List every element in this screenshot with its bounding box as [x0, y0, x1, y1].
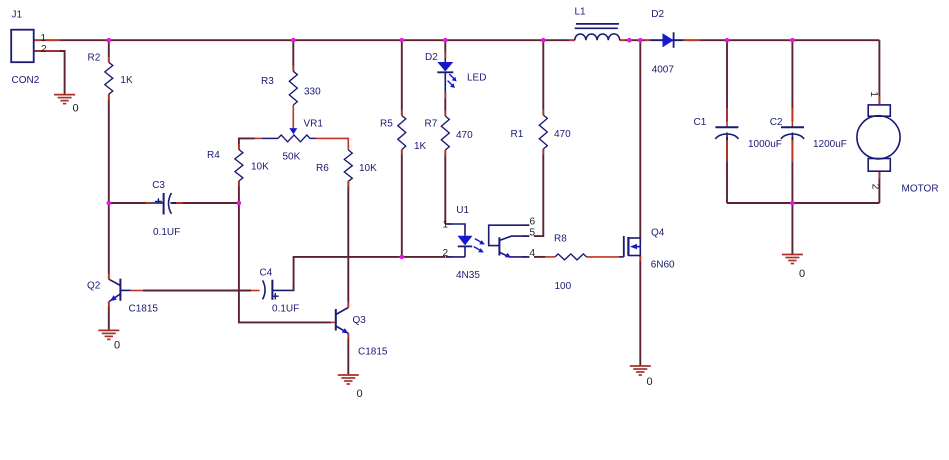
- svg-text:1200uF: 1200uF: [813, 139, 847, 150]
- wire C1 to bottom rail: [726, 137, 728, 203]
- svg-text:R8: R8: [554, 233, 567, 244]
- wire rail to R1: [542, 40, 544, 115]
- svg-text:0: 0: [114, 340, 120, 352]
- svg-text:0.1UF: 0.1UF: [272, 304, 299, 315]
- wire C4 up to pin2 node: [294, 257, 402, 291]
- resistor R5: [398, 116, 406, 150]
- wire rail to R2: [108, 40, 110, 62]
- wire R7 to U1 pin1: [444, 150, 446, 224]
- svg-text:CON2: CON2: [12, 75, 40, 86]
- svg-text:4: 4: [530, 248, 536, 259]
- wire Q2 emitter to ground: [108, 301, 110, 330]
- ground C2 node: [782, 255, 803, 264]
- potentiometer VR1 body: [262, 135, 316, 142]
- svg-text:U1: U1: [456, 205, 469, 216]
- svg-text:R1: R1: [511, 129, 524, 140]
- svg-text:330: 330: [304, 87, 321, 98]
- svg-text:LED: LED: [467, 72, 486, 83]
- wire bottom rail: [727, 202, 879, 204]
- resistor R4: [235, 150, 243, 182]
- svg-text:50K: 50K: [283, 152, 301, 163]
- red pin stubs: [34, 40, 880, 339]
- wire C3 left: [109, 202, 152, 204]
- wire R5 to pin2 node: [401, 150, 403, 257]
- resistor R1: [539, 115, 547, 149]
- optocoupler U1 light arrows: [474, 239, 485, 253]
- capacitor C4: [263, 280, 294, 300]
- wire rail to C1: [726, 40, 728, 121]
- wire C3 right to R4 node: [171, 202, 239, 204]
- svg-text:470: 470: [456, 130, 473, 141]
- wire R2 to C3 node to Q2 collector: [108, 94, 110, 279]
- svg-text:10K: 10K: [251, 161, 269, 172]
- optocoupler U1 4N35 input LED: [446, 224, 473, 257]
- wire pin2 node to U1 pin2: [402, 256, 446, 258]
- svg-text:C4: C4: [260, 267, 273, 278]
- svg-text:D2: D2: [651, 9, 664, 20]
- ground J1 pin2: [54, 95, 75, 104]
- svg-text:C1: C1: [694, 117, 707, 128]
- svg-text:R5: R5: [380, 119, 393, 130]
- svg-text:VR1: VR1: [304, 119, 324, 130]
- wire Q2 base to C4: [143, 290, 251, 292]
- svg-text:R4: R4: [207, 150, 220, 161]
- transistor Q2 C1815: [109, 279, 131, 302]
- svg-text:2: 2: [41, 44, 47, 55]
- ground Q4 source: [630, 366, 651, 375]
- resistor R8: [555, 254, 587, 260]
- svg-text:MOTOR: MOTOR: [902, 184, 939, 195]
- wire Q3 emitter to ground: [347, 333, 349, 375]
- svg-text:C2: C2: [770, 117, 783, 128]
- wire R6 bottom to Q3 collector: [347, 181, 349, 307]
- resistor R7: [441, 116, 449, 150]
- svg-text:1: 1: [41, 33, 47, 44]
- wire motor pin1 drop: [878, 40, 880, 105]
- MOSFET Q4 6N60: [619, 236, 640, 257]
- wire top rail left of L1: [34, 39, 575, 41]
- svg-text:L1: L1: [575, 7, 587, 18]
- svg-text:2: 2: [869, 184, 880, 190]
- wire VR1 left to R4: [239, 138, 255, 149]
- svg-text:0.1UF: 0.1UF: [153, 227, 180, 238]
- potentiometer VR1 wiper arrow: [289, 128, 297, 134]
- svg-text:C3: C3: [152, 180, 165, 191]
- wire top rail right of L1: [620, 39, 880, 41]
- svg-text:4N35: 4N35: [456, 270, 480, 281]
- svg-text:J1: J1: [12, 10, 23, 21]
- svg-text:R2: R2: [88, 53, 101, 64]
- LED D2 emission arrows: [448, 74, 457, 88]
- svg-text:1000uF: 1000uF: [748, 139, 782, 150]
- transistor Q3 C1815: [336, 308, 349, 334]
- svg-text:2: 2: [443, 248, 449, 259]
- wire Q4 source to ground: [639, 256, 641, 367]
- wire rail to R3: [292, 40, 294, 71]
- svg-text:0: 0: [73, 103, 79, 115]
- wire R1 to U1 pin5: [534, 149, 543, 236]
- svg-text:1K: 1K: [120, 75, 133, 86]
- red wire VR1 right to R6 top: [316, 138, 348, 150]
- svg-text:C1815: C1815: [129, 304, 159, 315]
- resistor R3: [289, 71, 297, 105]
- capacitor C3: [152, 193, 177, 215]
- wire U1 pin4 to R8: [534, 256, 546, 258]
- motor M1: [857, 105, 900, 171]
- svg-text:R6: R6: [316, 163, 329, 174]
- svg-text:R7: R7: [425, 118, 438, 129]
- optocoupler U1 phototransistor: [489, 225, 529, 257]
- wire R4 bottom to Q3 base: [239, 181, 331, 322]
- wire J1 pin2 to ground: [34, 51, 65, 95]
- inductor L1: [575, 24, 620, 40]
- svg-text:6: 6: [530, 216, 536, 227]
- svg-text:1: 1: [868, 91, 879, 97]
- wire C2 to bottom rail: [791, 137, 793, 203]
- capacitor C1: [715, 127, 738, 140]
- svg-text:D2: D2: [425, 52, 438, 63]
- diode D2 4007: [650, 32, 683, 48]
- ground Q2 emitter: [98, 330, 119, 339]
- svg-text:0: 0: [357, 388, 363, 400]
- wire C2 node ground drop: [791, 203, 793, 255]
- wire rail to C2: [791, 40, 793, 121]
- capacitor C2: [781, 127, 804, 140]
- LED D2: [437, 58, 453, 93]
- svg-text:10K: 10K: [359, 163, 377, 174]
- resistor R2: [105, 62, 113, 94]
- red wire R8 right to Q4 gate: [587, 256, 620, 258]
- svg-text:470: 470: [554, 129, 571, 140]
- svg-text:Q2: Q2: [87, 281, 101, 292]
- ground Q3 emitter: [338, 375, 359, 384]
- svg-text:0: 0: [647, 376, 653, 388]
- svg-text:C1815: C1815: [358, 347, 388, 358]
- wire rail to LED D2: [444, 40, 446, 58]
- svg-text:Q4: Q4: [651, 228, 665, 239]
- svg-text:R3: R3: [261, 76, 274, 87]
- svg-text:0: 0: [799, 268, 805, 280]
- connector J1 CON2: [11, 30, 34, 63]
- svg-text:Q3: Q3: [353, 315, 367, 326]
- svg-text:5: 5: [530, 227, 536, 238]
- svg-text:1: 1: [443, 220, 449, 231]
- svg-text:6N60: 6N60: [651, 260, 675, 271]
- wire LED to R7: [444, 93, 446, 117]
- wire Q4 drain: [639, 40, 641, 238]
- svg-text:100: 100: [555, 281, 572, 292]
- resistor R6: [344, 150, 352, 181]
- svg-text:4007: 4007: [652, 64, 675, 75]
- wire rail to R5: [401, 40, 403, 115]
- svg-text:1K: 1K: [414, 141, 427, 152]
- wire motor pin2 drop: [878, 171, 880, 203]
